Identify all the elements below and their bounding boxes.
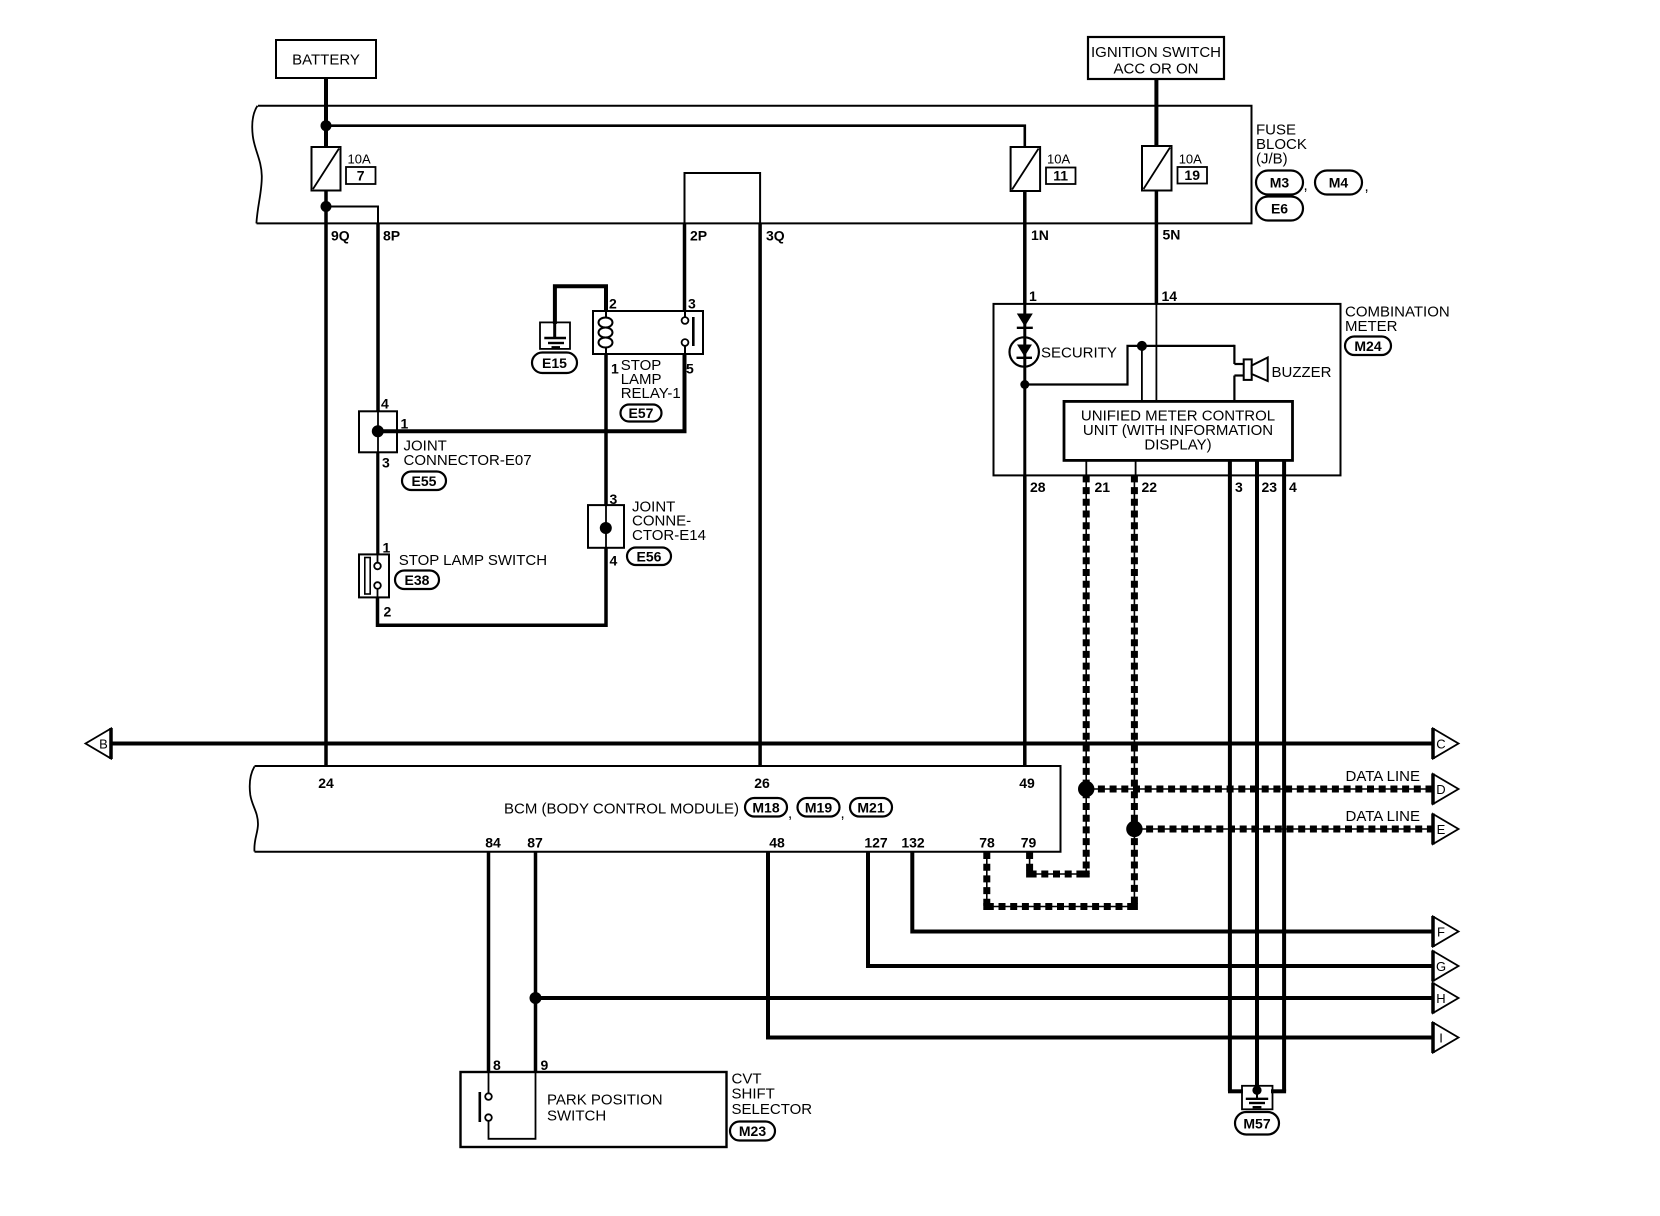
svg-text:14: 14	[1162, 288, 1178, 304]
wire data line loop to BCM 78	[987, 906, 1135, 908]
svg-text:E: E	[1437, 822, 1446, 837]
arrow F	[1433, 917, 1459, 947]
svg-text:F: F	[1437, 925, 1445, 940]
wire relay pin 1 to joint connector E14 pin 3	[604, 354, 608, 506]
node data line D junction	[1078, 781, 1094, 797]
svg-text:M57: M57	[1243, 1115, 1270, 1131]
svg-text:M19: M19	[805, 799, 832, 815]
svg-text:79: 79	[1021, 835, 1037, 851]
wire relay pin 5 to joint connector E07 pin 1	[378, 354, 685, 431]
svg-text:7: 7	[357, 168, 365, 184]
wire BCM 48 to I	[768, 852, 1432, 1038]
connector E56	[627, 548, 671, 566]
node E14 junction	[600, 522, 612, 534]
connector M23	[730, 1122, 775, 1141]
svg-text:9Q: 9Q	[331, 228, 350, 244]
arrow H	[1433, 983, 1459, 1013]
wire relay pin 2 to ground E15	[555, 286, 606, 324]
svg-text:DATA LINE: DATA LINE	[1346, 808, 1420, 825]
connector M57	[1235, 1112, 1279, 1135]
svg-text:26: 26	[754, 775, 770, 791]
wire meter 4 to ground	[1271, 1089, 1286, 1093]
svg-text:M4: M4	[1329, 175, 1349, 191]
node battery junction	[321, 120, 332, 131]
joint connector E07 (E55)	[359, 411, 397, 452]
svg-text:8: 8	[493, 1057, 501, 1073]
svg-text:E15: E15	[542, 355, 567, 371]
BCM box	[255, 766, 1061, 852]
buzzer	[1234, 363, 1243, 365]
svg-text:24: 24	[318, 775, 334, 791]
svg-text:M21: M21	[857, 799, 884, 815]
ground E15	[540, 322, 570, 349]
svg-text:SECURITY: SECURITY	[1041, 345, 1117, 362]
arrow G	[1433, 951, 1459, 981]
svg-text:DATA LINE: DATA LINE	[1346, 768, 1420, 785]
fuse 11 10A	[1011, 147, 1041, 191]
svg-text:E55: E55	[412, 473, 437, 489]
wire 8P to joint connector E07	[376, 223, 380, 412]
fuse block J/B outline	[257, 106, 1252, 224]
wire tap to UMCU	[1141, 346, 1143, 402]
svg-text:SELECTOR: SELECTOR	[732, 1101, 813, 1118]
svg-text:1N: 1N	[1031, 227, 1049, 243]
svg-text:3: 3	[610, 491, 618, 507]
svg-text:5: 5	[686, 361, 694, 377]
security indicator LED	[1009, 337, 1038, 366]
svg-text:,: ,	[841, 805, 845, 822]
connector M24	[1345, 337, 1391, 356]
svg-text:1: 1	[383, 540, 391, 556]
connector M19	[798, 798, 840, 817]
node buzzer tap	[1137, 341, 1147, 351]
svg-text:23: 23	[1262, 479, 1278, 495]
connector M21	[850, 798, 892, 817]
wire 9Q to BCM 24	[324, 191, 328, 767]
svg-text:48: 48	[769, 835, 785, 851]
node security junction	[1020, 380, 1029, 389]
wire 3Q to BCM 26	[758, 223, 762, 766]
svg-text:RELAY-1: RELAY-1	[621, 385, 681, 402]
svg-text:127: 127	[864, 835, 888, 851]
svg-text:21: 21	[1095, 479, 1111, 495]
svg-text:8P: 8P	[383, 228, 400, 244]
svg-text:METER: METER	[1345, 318, 1398, 335]
svg-text:2: 2	[609, 296, 617, 312]
connector M18	[745, 798, 787, 817]
wire meter pin 3	[1228, 460, 1232, 1091]
svg-text:84: 84	[485, 835, 501, 851]
svg-text:BCM (BODY CONTROL MODULE): BCM (BODY CONTROL MODULE)	[504, 801, 739, 818]
svg-text:,: ,	[788, 805, 792, 822]
wire data line D	[1086, 788, 1432, 790]
wire security branch	[1023, 304, 1026, 475]
wire battery bus to fuse 11	[326, 126, 1025, 148]
svg-text:28: 28	[1030, 479, 1046, 495]
svg-text:I: I	[1439, 1031, 1443, 1046]
svg-text:1: 1	[401, 416, 409, 432]
svg-text:2P: 2P	[690, 228, 707, 244]
svg-text:BATTERY: BATTERY	[292, 52, 360, 69]
arrow C	[1433, 729, 1459, 759]
connector E15	[532, 353, 577, 374]
wire meter pin 28 to BCM 49	[1023, 475, 1027, 766]
svg-text:1: 1	[611, 361, 619, 377]
svg-text:M3: M3	[1270, 175, 1290, 191]
svg-text:4: 4	[610, 553, 618, 569]
svg-text:M18: M18	[752, 799, 779, 815]
svg-text:G: G	[1436, 959, 1446, 974]
node H junction	[530, 992, 542, 1004]
fuse 19 10A	[1142, 146, 1172, 191]
wire data line from meter 22	[1133, 475, 1135, 906]
wire 2P-3Q jumper loop	[685, 173, 761, 223]
wire E07 pin 3 to stop lamp switch pin 1	[376, 452, 379, 555]
arrow D	[1433, 774, 1459, 804]
svg-text:9: 9	[541, 1057, 549, 1073]
combination meter box M24	[994, 304, 1341, 476]
wire 2P to relay pin 3	[683, 223, 687, 312]
svg-text:B: B	[99, 737, 108, 752]
svg-text:CONNECTOR-E07: CONNECTOR-E07	[404, 452, 532, 469]
connector M3	[1256, 171, 1303, 195]
svg-text:4: 4	[381, 396, 389, 412]
svg-text:4: 4	[1289, 479, 1297, 495]
svg-text:3: 3	[688, 296, 696, 312]
svg-text:1: 1	[1029, 288, 1037, 304]
svg-text:19: 19	[1184, 167, 1200, 183]
svg-text:132: 132	[901, 835, 925, 851]
svg-text:M24: M24	[1354, 338, 1381, 354]
svg-text:BUZZER: BUZZER	[1272, 364, 1332, 381]
wire data line E	[1134, 828, 1432, 830]
svg-text:3: 3	[1235, 479, 1243, 495]
svg-text:11: 11	[1053, 168, 1068, 184]
node data line E junction	[1126, 821, 1142, 837]
wire dashed loop corners	[1026, 871, 1033, 878]
wire B-C line	[111, 742, 1432, 746]
wire H line	[536, 996, 1433, 1000]
svg-text:5N: 5N	[1163, 227, 1181, 243]
wire BCM 127 to G	[868, 852, 1432, 966]
svg-text:E38: E38	[405, 572, 430, 588]
svg-text:ACC OR ON: ACC OR ON	[1113, 61, 1198, 78]
wire data line from meter 21	[1085, 475, 1087, 874]
svg-text:3: 3	[382, 455, 390, 471]
battery B+	[276, 40, 376, 78]
ignition switch	[1088, 37, 1224, 79]
svg-text:CTOR-E14: CTOR-E14	[632, 527, 706, 544]
wire BCM 84 to park switch pin 8	[487, 852, 491, 1073]
connector M4	[1315, 171, 1362, 195]
svg-text:IGNITION SWITCH: IGNITION SWITCH	[1091, 44, 1221, 61]
relay E57 stop lamp relay-1	[593, 311, 703, 354]
svg-text:10A: 10A	[1179, 152, 1202, 167]
wire security to buzzer/UMCU	[1025, 346, 1235, 385]
svg-text:,: ,	[1304, 177, 1308, 194]
wire switch pin 2 to E14 pin 4	[378, 548, 607, 625]
connector E55	[402, 472, 446, 491]
svg-text:DISPLAY): DISPLAY)	[1144, 437, 1211, 454]
svg-text:2: 2	[384, 604, 392, 620]
svg-text:E6: E6	[1271, 201, 1288, 217]
diode D1	[1017, 314, 1033, 327]
arrow I	[1433, 1023, 1459, 1053]
stop lamp switch E38	[359, 554, 389, 597]
connector E57	[621, 405, 662, 422]
node below fuse 7	[325, 191, 328, 224]
svg-text:M23: M23	[739, 1123, 766, 1139]
park position switch box M23	[461, 1072, 727, 1147]
svg-text:,: ,	[1365, 178, 1369, 195]
wire battery feed	[324, 78, 328, 148]
svg-text:49: 49	[1019, 775, 1035, 791]
svg-text:D: D	[1436, 782, 1445, 797]
relay contact	[682, 317, 689, 324]
wire meter pin 14 to UMCU	[1155, 304, 1157, 402]
svg-text:10A: 10A	[348, 152, 371, 167]
wire meter 3 to ground	[1228, 1089, 1243, 1093]
park switch contacts	[488, 1072, 490, 1093]
UMCU pin stubs 21 22	[1085, 460, 1087, 475]
svg-text:SWITCH: SWITCH	[547, 1108, 606, 1125]
wire meter pin 23	[1255, 460, 1259, 1088]
svg-text:C: C	[1436, 737, 1445, 752]
connector E6	[1256, 197, 1303, 221]
wire data line loop to BCM 79	[1030, 873, 1087, 875]
wire 1N to meter pin 1	[1023, 191, 1027, 305]
svg-text:PARK POSITION: PARK POSITION	[547, 1092, 663, 1109]
wire park switch internal	[489, 1072, 536, 1139]
wire ignition feed	[1154, 79, 1158, 147]
fuse 7 10A	[312, 147, 341, 191]
wire BCM 87 to park switch pin 9	[534, 852, 538, 1073]
svg-text:3Q: 3Q	[766, 228, 785, 244]
relay coil	[599, 318, 613, 328]
svg-text:E56: E56	[637, 548, 662, 564]
node E07 junction	[372, 425, 384, 437]
svg-text:H: H	[1436, 991, 1445, 1006]
svg-text:22: 22	[1142, 479, 1158, 495]
wire meter pin 4	[1282, 460, 1286, 1091]
svg-text:SHIFT: SHIFT	[732, 1086, 775, 1103]
svg-text:87: 87	[527, 835, 543, 851]
wire BCM 132 to F	[912, 852, 1432, 932]
unified meter control unit	[1064, 401, 1293, 460]
svg-text:(J/B): (J/B)	[1256, 151, 1288, 168]
svg-text:10A: 10A	[1047, 152, 1070, 167]
arrow B	[86, 729, 112, 759]
svg-text:E57: E57	[629, 405, 654, 421]
ground M57	[1242, 1086, 1273, 1110]
svg-text:78: 78	[979, 835, 995, 851]
wire 5N to meter pin 14	[1155, 191, 1159, 305]
wire branch to 8P	[326, 207, 378, 224]
joint connector E14 (E56)	[588, 505, 624, 548]
arrow E	[1433, 814, 1459, 844]
svg-text:STOP LAMP SWITCH: STOP LAMP SWITCH	[399, 552, 547, 569]
connector E38	[395, 571, 439, 590]
